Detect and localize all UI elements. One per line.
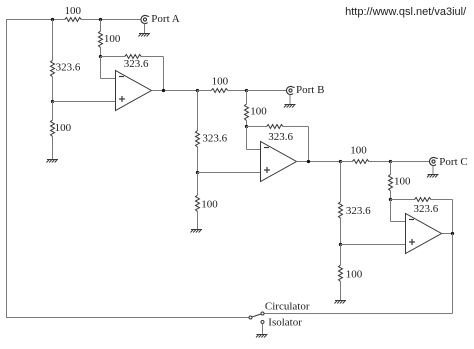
wire to U3 -input bbox=[391, 221, 406, 223]
svg-text:100: 100 bbox=[350, 145, 367, 157]
svg-text:100: 100 bbox=[394, 176, 411, 188]
svg-text:323.6: 323.6 bbox=[414, 203, 439, 215]
connector Port A bbox=[141, 13, 180, 25]
wire node down to -input bbox=[390, 200, 392, 222]
wire junction to R3 bbox=[52, 20, 54, 61]
wire R7 to +node bbox=[197, 147, 199, 173]
svg-text:100: 100 bbox=[212, 76, 229, 88]
resistor R4 100 bbox=[51, 120, 72, 137]
resistor R8 100 bbox=[196, 195, 219, 212]
svg-text:100: 100 bbox=[65, 5, 82, 17]
ground stage3 divider bbox=[335, 301, 347, 304]
node U3 output bbox=[451, 232, 454, 235]
ground stage2 divider bbox=[191, 230, 203, 233]
wire U3 output bbox=[442, 233, 453, 235]
wire R8 to ground bbox=[197, 212, 199, 230]
svg-text:Port B: Port B bbox=[296, 84, 324, 96]
wire R2 to feedback node bbox=[100, 48, 102, 57]
wire bottom rail to switch pole bbox=[6, 317, 249, 319]
wire circulator contact rail bbox=[264, 313, 452, 315]
ground at Port B bbox=[284, 105, 296, 108]
wire Port B ground stub bbox=[289, 95, 291, 105]
node stage3 +input bbox=[339, 243, 342, 246]
svg-text:100: 100 bbox=[104, 33, 121, 45]
wire node to R12 bbox=[340, 162, 342, 202]
switch SW1 circulator/isolator bbox=[249, 312, 264, 324]
svg-text:323.6: 323.6 bbox=[202, 133, 227, 145]
wire R15 to drop bbox=[431, 199, 453, 201]
wire node down to -input bbox=[100, 57, 102, 79]
node stage2 +input bbox=[196, 171, 199, 174]
wire +node to R4 bbox=[52, 102, 54, 121]
svg-text:Port C: Port C bbox=[439, 156, 467, 168]
resistor R11 100 bbox=[350, 145, 369, 164]
wire feedback drop U3 bbox=[452, 200, 454, 234]
node Port B junction bbox=[245, 89, 248, 92]
wire R9 to feedback node bbox=[246, 121, 248, 127]
wire to U3 +input bbox=[341, 244, 406, 246]
wire node to R15 bbox=[391, 199, 415, 201]
node top-left junction bbox=[51, 18, 54, 21]
wire isolator contact to ground bbox=[262, 324, 264, 335]
wire R12 to +node bbox=[340, 218, 342, 244]
node U1 feedback junction bbox=[99, 55, 102, 58]
wire R5 to drop bbox=[141, 56, 163, 58]
wire Port A ground stub bbox=[144, 24, 146, 34]
node Port C junction bbox=[389, 160, 392, 163]
ground stage1 divider bbox=[47, 160, 59, 163]
wire U2 output bbox=[297, 161, 341, 163]
wire R4 to ground bbox=[52, 137, 54, 160]
resistor R6 100 bbox=[211, 76, 228, 93]
wire node to R7 bbox=[197, 91, 199, 131]
op-amp U2 bbox=[261, 142, 297, 182]
connector Port C bbox=[429, 156, 467, 168]
svg-text:323.6: 323.6 bbox=[346, 205, 371, 217]
resistor R9 100 bbox=[245, 104, 268, 121]
wire feedback drop U1 bbox=[163, 57, 165, 91]
wire R1 to Port A bbox=[81, 19, 141, 21]
resistor R1 100 bbox=[65, 5, 82, 21]
svg-text:http://www.qsl.net/va3iul/: http://www.qsl.net/va3iul/ bbox=[345, 6, 467, 18]
ground at Port A bbox=[139, 34, 151, 37]
resistor R14 100 bbox=[389, 174, 412, 191]
wire to R11 bbox=[341, 161, 353, 163]
resistor R3 323.6 bbox=[51, 60, 81, 76]
node U1 feedback tap bbox=[162, 89, 165, 92]
resistor R12 323.6 bbox=[339, 202, 372, 219]
ground isolator bbox=[256, 335, 268, 338]
wire node to R10 bbox=[247, 126, 267, 128]
svg-text:100: 100 bbox=[250, 106, 267, 118]
wire R13 to ground bbox=[340, 282, 342, 301]
wire to U2 -input bbox=[247, 149, 261, 151]
wire Port C node to R14 bbox=[390, 162, 392, 175]
resistor R7 323.6 bbox=[196, 131, 228, 148]
wire +node to R13 bbox=[340, 245, 342, 266]
wire feedback drop U2 bbox=[308, 127, 310, 162]
wire Port C ground stub bbox=[432, 166, 434, 175]
wire to U2 +input bbox=[198, 172, 261, 174]
wire R3 to +node bbox=[52, 77, 54, 102]
wire to Port C bbox=[391, 161, 430, 163]
wire output down to switch bbox=[452, 234, 454, 314]
svg-text:100: 100 bbox=[201, 198, 218, 210]
node U2 feedback junction bbox=[245, 125, 248, 128]
svg-text:323.6: 323.6 bbox=[268, 131, 293, 143]
wire left feedback rail bbox=[6, 19, 8, 318]
resistor R2 100 bbox=[99, 31, 121, 48]
wire R10 to drop bbox=[283, 126, 308, 128]
ground at Port C bbox=[427, 175, 439, 178]
wire node down to -input bbox=[246, 127, 248, 150]
wire +node to R8 bbox=[197, 173, 199, 196]
svg-text:Isolator: Isolator bbox=[268, 317, 302, 329]
node U1 output branch bbox=[196, 89, 199, 92]
wire to U1 +input bbox=[53, 101, 116, 103]
wire R14 to feedback node bbox=[390, 191, 392, 200]
svg-text:323.6: 323.6 bbox=[56, 62, 81, 74]
resistor R13 100 bbox=[339, 265, 363, 282]
op-amp U3 bbox=[406, 214, 442, 254]
wire top to R2 bbox=[100, 20, 102, 32]
connector Port B bbox=[286, 84, 324, 96]
wire R6 to node bbox=[228, 90, 247, 92]
wire node to R5 bbox=[101, 56, 125, 58]
resistor R10 323.6 feedback bbox=[267, 125, 294, 144]
resistor R15 323.6 feedback bbox=[414, 198, 439, 216]
node U2 feedback tap bbox=[307, 160, 310, 163]
svg-text:100: 100 bbox=[346, 268, 363, 280]
op-amp U1 bbox=[116, 71, 152, 111]
node U3 feedback junction bbox=[389, 198, 392, 201]
svg-text:Port A: Port A bbox=[151, 13, 179, 25]
wire top rail to R1 bbox=[6, 19, 65, 21]
node stage1 +input bbox=[51, 100, 54, 103]
resistor R5 323.6 feedback bbox=[124, 55, 149, 70]
wire to Port B bbox=[247, 90, 287, 92]
wire to R6 bbox=[198, 90, 212, 92]
node R2 top junction bbox=[99, 18, 102, 21]
wire U1 output bbox=[152, 90, 198, 92]
wire Port B node to R9 bbox=[246, 91, 248, 105]
svg-text:Circulator: Circulator bbox=[265, 301, 310, 313]
svg-text:100: 100 bbox=[55, 122, 72, 134]
svg-text:323.6: 323.6 bbox=[124, 58, 149, 70]
node U2 output branch bbox=[339, 160, 342, 163]
wire R11 to node bbox=[369, 161, 391, 163]
wire to U1 -input bbox=[101, 78, 116, 80]
